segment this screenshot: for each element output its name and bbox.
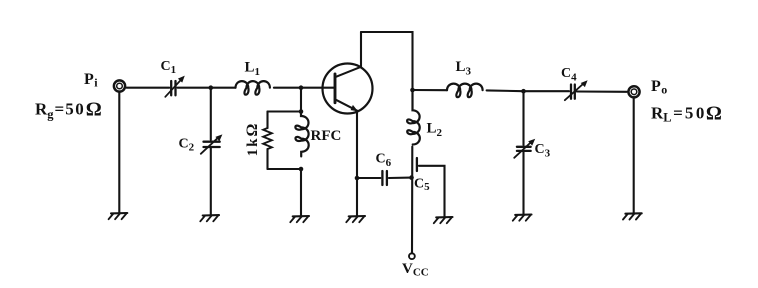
junction dot RFC top xyxy=(299,109,304,114)
transistor Q1 xyxy=(323,64,373,114)
junction dot RFC bottom xyxy=(299,167,304,172)
wire C5 to ground xyxy=(419,166,445,217)
port Pi xyxy=(114,80,125,91)
inductor L2 xyxy=(407,90,420,145)
wire node D down to C3 xyxy=(522,91,524,145)
junction dot C6/Vcc line xyxy=(409,175,414,180)
svg-text:C1: C1 xyxy=(161,59,177,76)
svg-text:VCC: VCC xyxy=(402,261,429,279)
svg-text:C2: C2 xyxy=(179,137,195,154)
inductor RFC xyxy=(295,112,308,157)
svg-text:RL=50Ω: RL=50Ω xyxy=(651,103,722,125)
capacitor C5 (right plate; line is left plate) xyxy=(416,158,418,171)
node B (junction dot base/RFC tap) xyxy=(299,85,304,90)
wire C6 to Vcc line xyxy=(389,177,412,179)
ground below RFC xyxy=(290,216,309,222)
wire top rail xyxy=(361,32,413,90)
capacitor C2 (variable) xyxy=(201,134,223,153)
capacitor C4 (variable) xyxy=(565,80,588,100)
inductor L1 xyxy=(236,81,270,95)
wire collector up xyxy=(360,32,362,67)
wire Pi down to ground xyxy=(118,93,120,213)
node A (junction dot C1/L1/C2) xyxy=(209,85,214,90)
wire Po down to ground xyxy=(633,99,635,213)
node D (junction dot L3/C3/C4) xyxy=(521,89,526,94)
wire emitter down xyxy=(356,112,358,178)
wire node A down to C2 xyxy=(210,88,212,140)
svg-text:L3: L3 xyxy=(456,59,472,78)
ground below C3 xyxy=(513,215,532,221)
inductor L3 xyxy=(447,84,483,98)
wire C4 to port Po xyxy=(577,90,627,92)
ground below Pi xyxy=(109,213,128,219)
wire emitter to ground xyxy=(356,178,358,216)
wire Pi to C1 xyxy=(127,87,170,89)
wire C1 to node A xyxy=(178,87,211,89)
wire bottom bar of R/RFC parallel xyxy=(268,168,302,170)
svg-text:Rg=50Ω: Rg=50Ω xyxy=(35,99,102,122)
svg-text:C3: C3 xyxy=(535,142,551,160)
ground below Po xyxy=(623,213,642,219)
ground below C5 xyxy=(434,217,453,223)
svg-text:Po: Po xyxy=(651,78,667,97)
wire node D to C4 xyxy=(524,90,570,92)
svg-text:C4: C4 xyxy=(561,66,577,84)
svg-text:Pi: Pi xyxy=(84,71,98,90)
terminal Vcc xyxy=(409,253,415,259)
node E (emitter junction dot) xyxy=(355,176,360,181)
wire RFC to ground xyxy=(300,169,302,216)
svg-text:C6: C6 xyxy=(376,152,392,170)
wire node C to L3 xyxy=(413,89,448,91)
wire C2 to ground xyxy=(210,148,212,214)
resistor 1k (zigzag) xyxy=(263,112,272,170)
wire emitter to C6 xyxy=(357,177,380,179)
wire L1 to node B xyxy=(274,87,301,89)
wire node B to transistor base xyxy=(301,87,335,89)
wire L3 to node D xyxy=(487,89,524,92)
wire C3 to ground xyxy=(522,152,524,214)
svg-text:RFC: RFC xyxy=(311,128,342,144)
svg-text:L1: L1 xyxy=(245,60,261,79)
svg-text:1kΩ: 1kΩ xyxy=(244,122,261,157)
svg-text:L2: L2 xyxy=(427,121,443,140)
capacitor C1 (variable) xyxy=(165,76,185,97)
capacitor C3 (variable) xyxy=(514,139,535,158)
wire L2 to Vcc terminal xyxy=(411,147,413,254)
wire node B down to RFC section xyxy=(300,88,302,112)
ground below emitter xyxy=(346,216,365,222)
wire top bar of R/RFC parallel xyxy=(268,110,302,112)
wire node A to L1 xyxy=(211,87,236,89)
ground below C2 xyxy=(200,215,219,221)
node C (collector/L2/L3 junction) xyxy=(410,88,415,93)
port Po xyxy=(628,86,639,97)
capacitor C6 xyxy=(382,171,387,185)
svg-text:C5: C5 xyxy=(414,177,430,194)
